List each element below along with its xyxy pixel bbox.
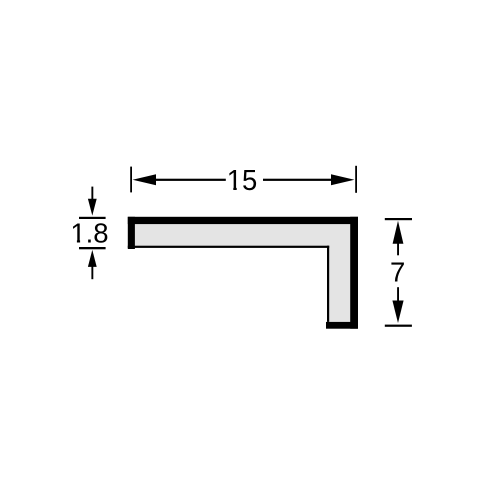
- dimension 15: left line segment: [154, 179, 226, 181]
- dimension 7: bottom arrow shaft: [397, 287, 399, 301]
- L-profile thick bottom edge of vertical arm: [326, 322, 358, 329]
- dimension 7: bottom arrowhead pointing down: [392, 301, 403, 324]
- dimension 15: left arrowhead: [133, 174, 156, 185]
- dimension 7: bottom extension line: [385, 325, 412, 327]
- dimension 7: top arrowhead pointing up: [393, 221, 404, 244]
- L-profile thick left end cap: [128, 217, 135, 249]
- L-profile thick top edge: [128, 217, 358, 224]
- dimension 7: top extension line: [385, 218, 412, 220]
- dimension 1.8: top arrowhead pointing down: [88, 199, 97, 216]
- dimension 15: right arrowhead: [331, 174, 354, 185]
- dimension 7: top arrow shaft: [397, 243, 399, 255]
- L-profile thick right edge: [350, 217, 358, 329]
- dimension 7: value label: [390, 257, 405, 288]
- dimension 15: right line segment: [263, 179, 335, 181]
- svg-text:1.8: 1.8: [70, 217, 108, 248]
- dimension 15: value label: [227, 165, 258, 197]
- dimension 1.8: value label: [70, 217, 108, 248]
- svg-text:15: 15: [227, 165, 258, 197]
- dimension 1.8: bottom extension line: [79, 247, 106, 249]
- dimension 1.8: top extension line: [79, 217, 106, 219]
- dimension 15: right extension tick: [355, 166, 357, 193]
- dimension 1.8: bottom arrowhead pointing up: [88, 250, 97, 267]
- L-profile gray fill: [135, 224, 350, 322]
- dimension 1.8: bottom arrow shaft: [91, 266, 93, 279]
- L-profile thin left line of vertical arm: [327, 246, 329, 322]
- L-profile thin bottom line of horizontal arm: [128, 246, 329, 248]
- svg-text:7: 7: [390, 257, 405, 288]
- dimension 15: left extension tick: [130, 167, 132, 193]
- dimension 1.8: top arrow shaft: [91, 187, 93, 201]
